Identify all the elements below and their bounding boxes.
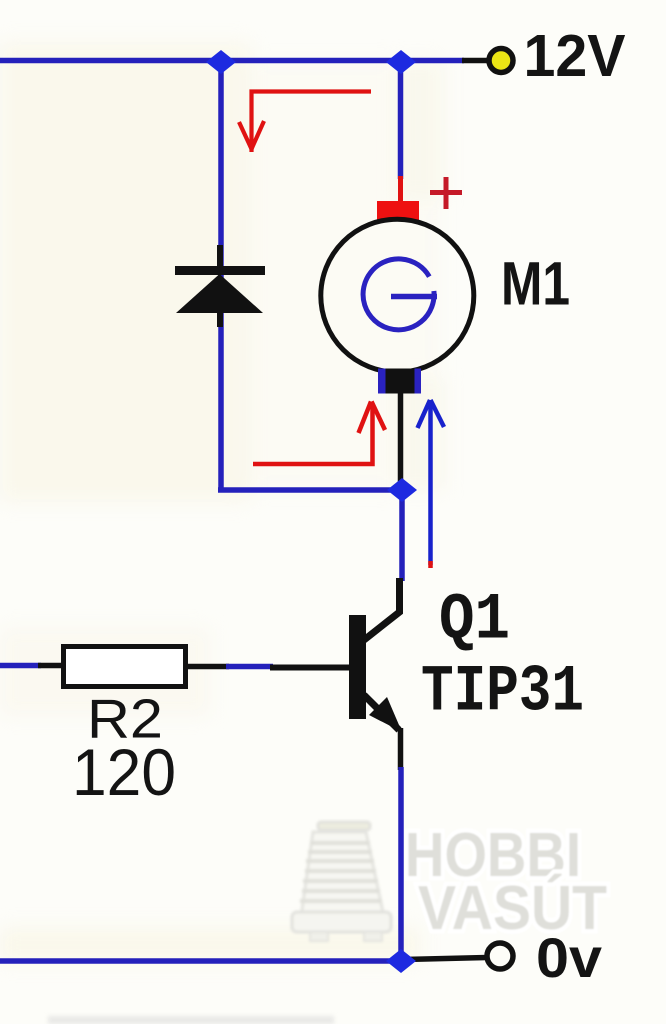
junction at bottom rail bbox=[386, 949, 416, 973]
watermark train logo bbox=[292, 822, 391, 941]
motor M1 inner bar blue bbox=[391, 294, 437, 300]
wire: top rail bbox=[0, 58, 404, 64]
svg-text:M1: M1 bbox=[501, 250, 570, 318]
resistor R2 body bbox=[64, 647, 186, 687]
motor M1 plus sign bbox=[430, 177, 462, 209]
wire: emitter lead black bbox=[398, 728, 404, 770]
watermark bottom streak bbox=[48, 1016, 334, 1024]
svg-text:TIP31: TIP31 bbox=[421, 655, 584, 730]
wire: black stub to 0v terminal bbox=[404, 958, 487, 960]
svg-text:120: 120 bbox=[72, 735, 176, 809]
wire: motor top lead red bbox=[398, 176, 403, 204]
motor M1 red top terminal bbox=[377, 201, 419, 221]
junction at top-left branch bbox=[206, 50, 236, 74]
blue arrow (pointing up) bbox=[418, 400, 445, 565]
svg-text:Q1: Q1 bbox=[439, 583, 510, 658]
wire: black stub to 12V terminal bbox=[462, 58, 488, 64]
blue arrow red tail tick bbox=[428, 561, 433, 568]
transistor Q1 collector diagonal bbox=[364, 578, 400, 640]
diode D1 triangle bbox=[176, 274, 263, 313]
motor M1 inner circle blue (open like G) bbox=[363, 259, 434, 330]
diode D1 cathode bar bbox=[175, 266, 265, 275]
wire: base branch blue left bbox=[0, 663, 41, 669]
wire: diode top lead black bbox=[217, 245, 223, 268]
wire: emitter branch blue bbox=[398, 767, 404, 963]
wire: motor top lead blue bbox=[398, 58, 404, 179]
red arrow bottom (bent, pointing up) bbox=[253, 402, 385, 465]
motor M1 bottom terminal black bbox=[386, 369, 415, 394]
wire: left branch vertical bbox=[218, 58, 224, 493]
motor M1 outer circle bbox=[321, 219, 474, 372]
svg-text:0v: 0v bbox=[536, 926, 602, 989]
wire: base branch black right of resistor bbox=[187, 664, 229, 670]
wire: lower horizontal to junction bbox=[218, 487, 404, 493]
wire: base branch blue middle bbox=[226, 664, 273, 670]
junction at top motor branch bbox=[386, 50, 416, 74]
red arrow top (bent, pointing down) bbox=[239, 92, 371, 153]
wire: top rail blue stub to 12V bbox=[401, 58, 464, 64]
wire: base lead black to transistor bbox=[270, 665, 350, 671]
terminal 0v (open) bbox=[487, 943, 513, 969]
wire: diode bottom lead black bbox=[217, 312, 223, 327]
wire: motor bottom lead black bbox=[398, 390, 404, 482]
motor M1 bottom terminal blue bbox=[378, 369, 421, 394]
transistor Q1 emitter arrowhead bbox=[369, 697, 402, 732]
svg-text:12V: 12V bbox=[524, 23, 626, 89]
wire: collector branch blue bbox=[399, 488, 405, 581]
transistor Q1 base bar bbox=[349, 615, 366, 719]
transistor Q1 emitter diagonal bbox=[364, 695, 399, 730]
wire: base branch black stub left of resistor bbox=[38, 663, 63, 669]
terminal 12V (yellow) bbox=[489, 49, 513, 73]
junction at collector node bbox=[387, 478, 417, 502]
wire: bottom rail bbox=[0, 958, 404, 964]
